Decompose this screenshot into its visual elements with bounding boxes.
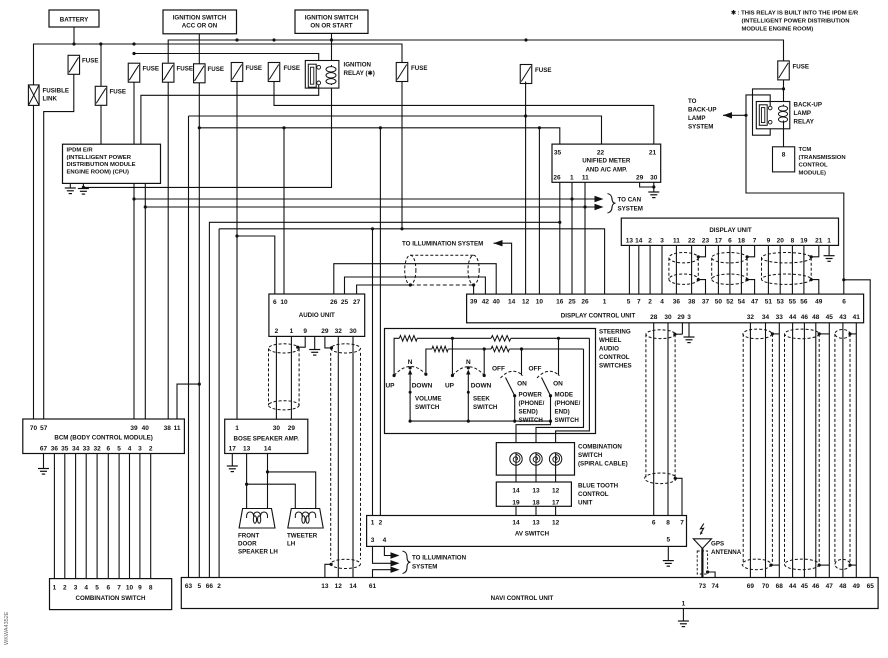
svg-text:7: 7 (637, 299, 641, 306)
wire: shieldE bottom drain tie (819, 564, 829, 566)
BCM box (23, 419, 185, 454)
svg-text:2: 2 (149, 445, 153, 452)
DCU ground (684, 337, 695, 343)
svg-text:ACC OR ON: ACC OR ON (182, 23, 218, 30)
line F9 chain to UM22 (189, 116, 602, 144)
junction F8 on line228 (400, 227, 403, 230)
shield DU cable 3 (762, 253, 812, 285)
svg-text:AND A/C AMP.: AND A/C AMP. (585, 166, 627, 173)
svg-text:✱ : THIS RELAY IS BUILT INTO T: ✱ : THIS RELAY IS BUILT INTO THE IPDM E/… (731, 10, 859, 17)
svg-text:7: 7 (753, 237, 757, 244)
svg-text:65: 65 (867, 583, 875, 590)
front door speaker LH (239, 509, 275, 529)
svg-text:47: 47 (751, 299, 759, 306)
wire: DCU 43 to NAVI 48 (842, 323, 844, 578)
svg-text:27: 27 (353, 299, 361, 306)
junction battery/bus B (72, 42, 75, 45)
svg-text:TCM: TCM (799, 147, 812, 153)
mode switch lever (542, 378, 551, 396)
svg-text:10: 10 (126, 584, 134, 591)
svg-text:TO: TO (688, 98, 697, 105)
BCM ground (38, 469, 49, 475)
svg-text:NAVI CONTROL UNIT: NAVI CONTROL UNIT (491, 595, 554, 602)
svg-text:6: 6 (728, 237, 732, 244)
svg-text:30: 30 (273, 425, 281, 432)
wire: mode ON up to ladder1 (558, 338, 560, 375)
wire: drain to DCU 29 (675, 333, 683, 335)
junction bus seek (467, 420, 470, 423)
svg-text:2: 2 (379, 519, 383, 526)
label GPS antenna (711, 541, 742, 557)
TCM box (773, 147, 795, 172)
svg-text:69: 69 (747, 583, 755, 590)
arrow illumination 3 (391, 567, 400, 573)
junction CAN-H (144, 205, 147, 208)
svg-text:18: 18 (532, 500, 540, 507)
wire: line228 down to NAVI 2 (218, 229, 220, 578)
svg-text:53: 53 (777, 299, 785, 306)
svg-text:FUSE: FUSE (246, 65, 263, 72)
svg-text:DISPLAY UNIT: DISPLAY UNIT (709, 227, 752, 234)
svg-text:8: 8 (791, 237, 795, 244)
svg-text:ENGINE ROOM) (CPU): ENGINE ROOM) (CPU) (67, 169, 130, 175)
junction display10 tap (538, 126, 541, 129)
svg-text:12: 12 (552, 519, 560, 526)
svg-text:2: 2 (648, 237, 652, 244)
svg-text:56: 56 (800, 299, 808, 306)
wire: fuse2 to IPDM (100, 105, 102, 144)
label volume switch (415, 396, 441, 412)
junction navi13 shieldB bottom drain (330, 563, 333, 566)
junction backup fuse out (782, 87, 785, 90)
wire: tap to AV SWITCH 2 (379, 128, 381, 516)
svg-text:23: 23 (702, 237, 710, 244)
wire: relay contact bottom to IPDM (141, 85, 319, 144)
wire: DCU 48 to NAVI 46 (815, 323, 817, 578)
junction bus volume (409, 420, 412, 423)
combination switch box (50, 579, 172, 610)
svg-text:17: 17 (229, 446, 237, 453)
fuse F7 (268, 63, 280, 82)
note: relay built into IPDM E/R (731, 10, 859, 33)
display unit box (621, 218, 838, 245)
svg-text:3: 3 (138, 445, 142, 452)
wire: AUDIO 27 drain to DCU 39 (357, 285, 411, 294)
svg-text:(PHONE/: (PHONE/ (555, 400, 581, 407)
svg-text:36: 36 (51, 445, 59, 452)
svg-text:32: 32 (335, 328, 343, 335)
blue tooth control unit box (496, 482, 571, 506)
shield audio-navi cable (331, 344, 361, 569)
wire: AV 5 to ground (667, 546, 669, 560)
svg-text:1: 1 (827, 237, 831, 244)
svg-text:1: 1 (570, 174, 574, 181)
wire: NAVI 61 to illumination (373, 570, 396, 578)
svg-text:SPEAKER LH: SPEAKER LH (238, 549, 278, 556)
wire: DU 11 down (675, 245, 677, 294)
shield audio-dcu cable (405, 255, 480, 284)
svg-text:13: 13 (243, 446, 251, 453)
junction audio shieldA drain (296, 346, 299, 349)
wire: BCM 34 to combination switch (75, 454, 77, 579)
ignition switch ACC box (163, 10, 237, 34)
fuse F3 (128, 63, 140, 82)
svg-text:MODULE ENGINE ROOM): MODULE ENGINE ROOM) (742, 27, 814, 33)
wire: BCM 67 to ground (43, 454, 45, 469)
wire: DU 20 down (779, 245, 781, 294)
svg-text:8: 8 (782, 152, 786, 159)
AUDIO ground (309, 350, 320, 356)
backup contact bottom terminal (768, 120, 772, 124)
svg-text:17: 17 (715, 237, 723, 244)
svg-text:6: 6 (106, 584, 110, 591)
junction seek-down ladder2 (483, 347, 486, 350)
wire: relay coil to ground line (83, 88, 331, 188)
wire: ladder1 right drop to spiral3 (556, 338, 590, 442)
svg-text:19: 19 (800, 237, 808, 244)
junction line222 on UM26 wire (558, 221, 561, 224)
fuse F4 (162, 63, 174, 82)
wire: DU 17 down (717, 245, 719, 294)
label steering switches (599, 329, 632, 370)
shield DCU-NAVI cable 2 (785, 329, 820, 570)
svg-text:COMBINATION: COMBINATION (578, 444, 622, 451)
wire seek down (483, 349, 485, 376)
volume switch pole N (409, 366, 412, 369)
volume switch UP terminal (393, 374, 396, 377)
wire: branch to tweeter left (247, 484, 296, 518)
line F8 to DISPLAY CONTROL 1 (219, 229, 604, 294)
svg-text:DISTRIBUTION MODULE: DISTRIBUTION MODULE (67, 162, 136, 168)
arrow to illumination (top) (494, 240, 503, 246)
svg-text:FUSE: FUSE (110, 89, 127, 96)
arrow illumination 1 (391, 552, 400, 558)
svg-text:25: 25 (568, 299, 576, 306)
svg-text:3: 3 (660, 237, 664, 244)
brace TO CAN (608, 194, 616, 214)
CAN-H arrow (595, 204, 604, 210)
svg-text:11: 11 (582, 174, 589, 181)
wire: shieldD bottom drain tie (771, 564, 779, 566)
wire: DCU 44 to NAVI 44 (792, 323, 794, 578)
wire: AUDIO 2 to BOSE 30 (275, 336, 277, 419)
svg-text:35: 35 (61, 445, 69, 452)
svg-text:7: 7 (680, 519, 684, 526)
backup relay coil (778, 105, 787, 124)
IPDM ground 2 wire (82, 183, 84, 188)
junction shieldE top drain (818, 332, 821, 335)
bus A (ign on/start feed) (168, 40, 783, 63)
wire: F10 to junction (783, 80, 785, 89)
svg-text:22: 22 (597, 150, 605, 157)
relay contact bottom terminal (317, 81, 321, 85)
svg-text:57: 57 (40, 425, 48, 432)
junction to back-up lamp system (744, 114, 747, 117)
svg-text:49: 49 (815, 299, 823, 306)
junction relay-coil ground (82, 186, 85, 189)
wire ladder2 seg a (448, 348, 491, 350)
svg-text:26: 26 (330, 299, 338, 306)
svg-text:1: 1 (53, 584, 57, 591)
svg-text:END): END) (555, 409, 570, 416)
seek switch arc (452, 367, 484, 376)
resistor R2 (432, 346, 448, 352)
label seek switch (473, 396, 498, 412)
svg-text:28: 28 (650, 314, 658, 321)
bus B (battery feed) (34, 44, 403, 85)
svg-text:6: 6 (842, 299, 846, 306)
wire: DU 1 to ground (828, 245, 830, 255)
wire: BT 17 to AV 12 (555, 506, 557, 515)
svg-text:37: 37 (702, 299, 710, 306)
relay contact top terminal (317, 65, 321, 69)
svg-text:RELAY (✱): RELAY (✱) (344, 70, 375, 77)
fuse F5 (194, 64, 206, 83)
svg-text:UNIT: UNIT (578, 500, 593, 507)
svg-text:9: 9 (303, 328, 307, 335)
switch common bus (410, 420, 550, 422)
svg-text:67: 67 (40, 445, 48, 452)
wire: DU 8 down (791, 245, 793, 294)
wire: DCU 41 to NAVI 49 (855, 323, 857, 578)
svg-text:DOWN: DOWN (471, 383, 492, 390)
wire: ON/START switch to relay coil (331, 33, 333, 65)
wire: DCU 30 to AV 8 (667, 323, 669, 516)
svg-text:FUSE: FUSE (284, 65, 301, 72)
svg-text:BOSE SPEAKER AMP.: BOSE SPEAKER AMP. (234, 436, 300, 443)
wire: shieldB drain to NAVI 13 (325, 564, 331, 577)
wire: DU 2 down (649, 245, 651, 294)
wire: BCM 6 to combination switch (107, 454, 109, 579)
junction bus C on fuse3 wire (132, 52, 135, 55)
wire: BCM 4 to combination switch (129, 454, 131, 579)
ladder line 2 (426, 349, 432, 374)
junction UM29/30 (652, 185, 655, 188)
wire: DU 19 down (803, 245, 805, 294)
svg-text:42: 42 (482, 299, 490, 306)
svg-text:5: 5 (627, 299, 631, 306)
wire: DU 9 down (767, 245, 769, 294)
svg-text:40: 40 (493, 299, 501, 306)
fuse F6 (231, 63, 243, 82)
svg-text:COMBINATION SWITCH: COMBINATION SWITCH (75, 595, 146, 602)
svg-text:40: 40 (142, 425, 150, 432)
IPDM ground 1 (65, 188, 76, 194)
junction fuse3/bus B (132, 42, 135, 45)
wire: NAVI 1 to ground (682, 609, 684, 622)
svg-text:4: 4 (84, 584, 88, 591)
svg-text:18: 18 (738, 237, 746, 244)
svg-text:30: 30 (650, 174, 658, 181)
wire: IPDM out CAN-L to BCM 39 (133, 183, 135, 419)
wire: DCU 32 to NAVI 69 (749, 323, 751, 578)
label mode switch (555, 392, 581, 425)
svg-text:30: 30 (664, 314, 672, 321)
svg-text:DOOR: DOOR (238, 541, 257, 548)
svg-text:39: 39 (470, 299, 478, 306)
svg-text:3: 3 (687, 314, 691, 321)
line F5 feed to UM35 (199, 83, 560, 144)
svg-text:WHEEL: WHEEL (599, 337, 622, 344)
svg-text:34: 34 (72, 445, 80, 452)
CAN-L arrow (595, 196, 604, 202)
shield bottom edge (dashed) (410, 284, 473, 286)
wire: DU 23 to shield1 (698, 245, 705, 256)
tweeter LH (288, 509, 323, 529)
svg-text:5: 5 (95, 584, 99, 591)
junction AV1 tap (371, 227, 374, 230)
svg-text:(TRANSMISSION: (TRANSMISSION (799, 155, 846, 161)
svg-text:FUSE: FUSE (177, 66, 194, 73)
svg-text:74: 74 (711, 583, 719, 590)
back-up lamp relay box (756, 102, 790, 129)
svg-text:45: 45 (801, 583, 809, 590)
wire: BOSE 17 to ground (231, 454, 233, 467)
svg-text:ON: ON (553, 381, 563, 388)
svg-text:29: 29 (288, 425, 296, 432)
volume switch DOWN terminal (424, 373, 427, 376)
wire: BCM 36 to combination switch (53, 454, 55, 579)
label to back-up lamp system (688, 98, 717, 131)
junction fuse2/bus B (99, 42, 102, 45)
label to illumination system (bottom) (412, 555, 467, 571)
svg-text:47: 47 (826, 583, 834, 590)
svg-text:5: 5 (117, 445, 121, 452)
wire: UM 29 jog (640, 182, 654, 187)
fuse F9 (520, 65, 532, 84)
wire: UM 11 to DISPLAY CONTROL 26 (584, 182, 586, 294)
svg-text:10: 10 (536, 299, 544, 306)
junction DU shield1 top drain (697, 255, 700, 258)
svg-text:AUDIO: AUDIO (599, 346, 619, 353)
label ignition relay (344, 62, 375, 78)
wire: to relay contact bottom (753, 89, 784, 135)
label tweeter (287, 533, 318, 548)
svg-text:ON: ON (517, 381, 527, 388)
label spiral cable (578, 444, 628, 468)
fuse F10 (back-up) (778, 61, 790, 80)
junction bus power (513, 420, 516, 423)
wire: DCU 14 to illumination (494, 243, 512, 294)
label front door speaker (238, 533, 278, 556)
wire: drain to AV 7 (675, 478, 682, 515)
wire: backup contact out (746, 95, 844, 280)
svg-text:29: 29 (321, 328, 329, 335)
svg-text:32: 32 (747, 314, 755, 321)
svg-text:1: 1 (371, 519, 375, 526)
svg-text:21: 21 (815, 237, 823, 244)
svg-text:AUDIO UNIT: AUDIO UNIT (299, 312, 335, 319)
svg-text:1: 1 (682, 601, 686, 608)
svg-text:38: 38 (688, 299, 696, 306)
resistor R3 (491, 336, 511, 342)
wire: UM 26 to DISPLAY CONTROL 16 (559, 182, 561, 294)
svg-text:52: 52 (726, 299, 734, 306)
wire: AUDIO 30 to NAVI 14 (352, 336, 354, 577)
wire: branch to AUDIO 6 (237, 236, 275, 294)
wire: tap to DISPLAY CONTROL 10 (538, 128, 540, 294)
wire: DU 13 down (628, 245, 630, 294)
volume switch arc (394, 366, 426, 375)
wire: F8 down (401, 81, 403, 229)
wire: DU 18 down (740, 245, 742, 294)
wire: mode pole to bus (550, 396, 552, 421)
arrow to back-up system (723, 112, 732, 118)
backup contact top terminal (768, 106, 772, 110)
svg-text:50: 50 (715, 299, 723, 306)
BOSE ground (227, 466, 238, 472)
svg-text:(INTELLIGENT POWER: (INTELLIGENT POWER (67, 155, 132, 161)
svg-text:12: 12 (522, 299, 530, 306)
svg-text:14: 14 (264, 446, 272, 453)
combination switch (spiral cable) box (496, 443, 574, 476)
bose speaker amp box (225, 419, 308, 453)
svg-text:8: 8 (149, 584, 153, 591)
svg-text:BLUE TOOTH: BLUE TOOTH (578, 483, 619, 490)
junction DU shield2 top drain (746, 255, 749, 258)
svg-text:DOWN: DOWN (412, 383, 433, 390)
wire: shield3 to DCU 49 (811, 280, 819, 295)
svg-text:STEERING: STEERING (599, 329, 631, 336)
wire: BCM 33 to combination switch (85, 454, 87, 579)
svg-text:SYSTEM: SYSTEM (618, 206, 643, 213)
wire: UM 30 to ground (653, 182, 655, 192)
svg-text:SWITCH: SWITCH (555, 417, 580, 424)
GPS antenna coax (701, 549, 703, 578)
shield DU cable 2 (712, 253, 747, 285)
svg-text:6: 6 (106, 445, 110, 452)
svg-text:26: 26 (553, 174, 561, 181)
wire: BCM 2 to combination switch (150, 454, 152, 579)
svg-text:CONTROL: CONTROL (599, 354, 630, 361)
svg-text:LAMP: LAMP (688, 115, 706, 122)
wire: F6 to BOSE 1 (236, 81, 238, 419)
wire: BCM 32 to combination switch (96, 454, 98, 579)
wire: shield2 to DCU 47 (747, 280, 755, 295)
wire: BCM 35 to combination switch (64, 454, 66, 579)
wire: GPS drain to NAVI 74 (708, 572, 716, 578)
DU ground (824, 256, 835, 262)
svg-text:73: 73 (699, 583, 707, 590)
label fusible link (43, 88, 69, 103)
svg-text:3: 3 (74, 584, 78, 591)
shield DCU-NAVI cable 1 (742, 329, 772, 570)
junction backup line display6 (842, 278, 845, 281)
svg-text:26: 26 (581, 299, 589, 306)
brace illumination (403, 551, 411, 574)
seek switch pole N (467, 366, 470, 369)
junction shieldD bottom drain (769, 564, 772, 567)
svg-text:63: 63 (185, 583, 193, 590)
svg-text:13: 13 (532, 487, 540, 494)
svg-text:44: 44 (789, 314, 797, 321)
svg-text:GPS: GPS (711, 541, 724, 548)
wire: to NAVI 65 (844, 280, 870, 578)
svg-text:LAMP: LAMP (794, 110, 812, 117)
junction shieldD top drain (771, 332, 774, 335)
wire: branch down to NAVI 63 (188, 116, 190, 578)
svg-text:SWITCH: SWITCH (473, 404, 498, 411)
svg-text:4: 4 (128, 445, 132, 452)
ignition switch ON/START box (295, 10, 368, 33)
junction drain left ellipse (409, 283, 412, 286)
GPS antenna triangle (693, 539, 711, 549)
svg-text:44: 44 (789, 583, 797, 590)
svg-text:LINK: LINK (43, 96, 58, 103)
svg-text:35: 35 (554, 150, 562, 157)
svg-text:ANTENNA: ANTENNA (711, 549, 742, 556)
svg-text:14: 14 (512, 519, 520, 526)
